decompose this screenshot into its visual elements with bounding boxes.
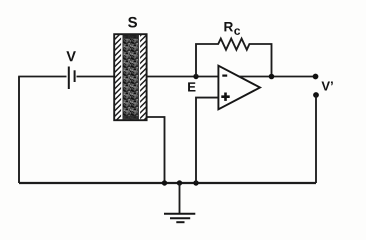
battery V	[69, 67, 75, 90]
wire feedback: resistor down to output node	[252, 44, 272, 77]
op-amp U1	[218, 66, 260, 110]
sample cell S (electrodes + sample)	[114, 34, 146, 120]
label V'	[321, 82, 329, 91]
junction dot (non-inverting wire / rail)	[193, 180, 198, 185]
junction dot (ground stub / rail)	[177, 180, 182, 185]
label Rc	[224, 22, 240, 35]
wire output to terminal	[239, 76, 316, 78]
wire feedback: E up to resistor	[196, 44, 216, 77]
wire bottom rail	[19, 182, 316, 184]
wire lower terminal down to rail	[315, 95, 317, 183]
wire S bottom tap to ground rail	[147, 117, 165, 183]
terminal dot (lower, to ground rail)	[313, 92, 319, 98]
node E	[193, 74, 198, 79]
resistor Rc	[216, 39, 252, 50]
junction dot (feedback / output)	[269, 74, 275, 80]
terminal dot V' (upper)	[313, 74, 319, 80]
junction dot (sample tap / rail)	[162, 180, 167, 185]
wire S to op-amp inverting input (through node E)	[147, 76, 219, 78]
wire non-inverting input down to rail	[196, 98, 219, 183]
ground	[164, 183, 195, 222]
op-amp minus sign	[222, 74, 227, 76]
wire from left corner to battery	[18, 76, 66, 78]
op-amp plus sign	[221, 93, 229, 101]
wire battery to sample S	[77, 76, 115, 78]
label V	[66, 51, 75, 61]
wire left vertical (battery loop)	[18, 77, 20, 184]
label E	[188, 82, 195, 91]
label S	[128, 17, 137, 28]
